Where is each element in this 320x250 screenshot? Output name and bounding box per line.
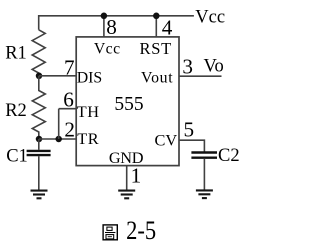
svg-text:4: 4 <box>162 15 173 39</box>
svg-text:Vcc: Vcc <box>195 8 225 28</box>
wire pin 4 stub <box>155 16 157 37</box>
wire C2 bottom lead <box>203 159 205 191</box>
caption character tu (figure) drawn glyph <box>103 225 117 240</box>
wire pin 7 DIS <box>39 75 77 77</box>
svg-text:DIS: DIS <box>77 69 102 86</box>
svg-text:CV: CV <box>154 131 177 150</box>
wire pin 8 stub <box>103 16 105 37</box>
svg-text:8: 8 <box>106 15 117 39</box>
wire Vcc top rail <box>39 16 194 30</box>
svg-text:2-5: 2-5 <box>126 216 156 245</box>
resistor R2 <box>32 76 45 139</box>
wire C1 bottom lead <box>38 156 40 190</box>
svg-text:Vcc: Vcc <box>94 40 121 57</box>
svg-text:TH: TH <box>77 102 100 121</box>
capacitor C1 <box>27 151 51 155</box>
svg-text:C2: C2 <box>218 146 240 166</box>
IC U1 555 timer box <box>76 37 179 166</box>
svg-text:Vo: Vo <box>204 57 224 77</box>
ground below C2 <box>196 190 213 198</box>
svg-text:7: 7 <box>64 55 75 79</box>
svg-text:C1: C1 <box>6 146 28 166</box>
svg-text:GND: GND <box>109 148 144 167</box>
svg-text:Vout: Vout <box>141 69 173 86</box>
wire TH to TR link <box>58 109 60 139</box>
resistor R1 <box>32 30 45 76</box>
svg-text:RST: RST <box>140 39 172 58</box>
node B junction dot (R2/C1/pin2) <box>36 136 43 143</box>
svg-text:555: 555 <box>114 94 143 115</box>
wire pin 6 TH stub <box>59 108 77 110</box>
svg-text:R2: R2 <box>5 101 27 121</box>
svg-text:6: 6 <box>63 88 74 112</box>
svg-text:R1: R1 <box>5 43 27 63</box>
node junction dot pin 4 rail <box>153 13 160 19</box>
wire C1 top lead <box>38 139 40 150</box>
wire pin 3 Vout output <box>179 75 222 77</box>
node C junction dot (TH-TR tie) <box>55 136 62 143</box>
ground below C1 <box>31 191 48 199</box>
ground below pin 1 <box>118 191 135 199</box>
wire pin 2 TR <box>39 138 77 140</box>
svg-text:2: 2 <box>64 117 75 141</box>
svg-text:3: 3 <box>182 55 193 79</box>
svg-text:TR: TR <box>77 129 99 148</box>
svg-text:5: 5 <box>184 118 195 142</box>
wire pin 1 GND stub <box>126 166 128 191</box>
node A junction dot (R1/R2/pin7) <box>36 73 43 80</box>
capacitor C2 <box>191 153 217 158</box>
node junction dot pin 8 rail <box>101 13 108 19</box>
wire pin 5 CV stub <box>179 140 204 151</box>
